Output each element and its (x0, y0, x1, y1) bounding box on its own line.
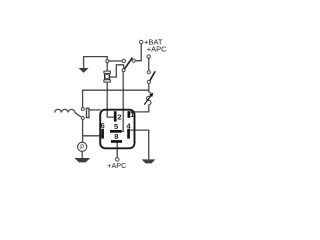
svg-text:+APC: +APC (147, 45, 167, 54)
wire fuse F1 down to relay pin 2 (107, 82, 114, 117)
wire S2 to rheostat R1 (148, 84, 150, 93)
wire upper +APC down to switch S2 (148, 58, 150, 70)
rheostat R1 wavy element (147, 92, 151, 105)
connector J1 lower pin (81, 117, 84, 120)
wire rheostat R1 down to relay pin 1 (130, 105, 149, 112)
node A junction circle (106, 60, 109, 63)
ground G1 symbol (79, 68, 89, 73)
coil lead squiggle (left harness wire) (55, 109, 82, 116)
switch S2 blade (150, 71, 156, 81)
pump M1 circle (78, 142, 87, 151)
relay pin 8 bar (111, 140, 122, 143)
terminal +APC circle (upper) (147, 55, 150, 58)
svg-text:2: 2 (117, 113, 121, 122)
switch S1 left contact (122, 59, 125, 62)
wire junction A to S1 left contact (109, 60, 122, 62)
svg-text:1: 1 (130, 110, 134, 119)
fuse F1 (lamp-in-box) top cap (104, 71, 111, 73)
svg-text:+APC: +APC (107, 161, 126, 170)
fuse F1 body (105, 73, 110, 79)
fuse F1 bottom cap (104, 80, 111, 82)
wire +BAT down to switch S1 right contact (135, 44, 141, 61)
ground G3 symbol (bottom right) (142, 159, 156, 163)
fuse F1 inner circle (105, 74, 109, 78)
wire S1 pivot down to relay pin 5 (122, 72, 124, 132)
wire connector J1 upper pin up and across to R1 node (83, 90, 149, 107)
relay pin 2 bar (114, 111, 117, 121)
wire node A down to fuse F1 (106, 63, 108, 72)
wire fuse side tap to S1 pivot (n-detour) (110, 65, 124, 77)
switch S1 blade (124, 58, 132, 70)
relay pin 5 bar (110, 130, 122, 133)
wire connector J1 lower pin down to pump (82, 120, 84, 143)
connector J1 body bar (86, 108, 89, 118)
terminal +BAT circle (140, 40, 143, 43)
ground G1 wire (top left) (84, 57, 108, 69)
relay box K1 outline (100, 110, 134, 149)
svg-text:6: 6 (100, 121, 104, 130)
svg-text:8: 8 (114, 132, 118, 141)
wire relay pin 4 to right ground (130, 130, 149, 159)
switch S1 right contact (132, 59, 135, 62)
wire relay pin 8 down to lower +APC terminal (116, 143, 118, 158)
relay pin 4 bar (127, 129, 130, 139)
terminal +APC circle (lower) (115, 158, 119, 162)
switch S2 upper contact (147, 71, 150, 74)
relay pin 6 bar (101, 129, 104, 139)
wire pump to ground G2 (81, 151, 83, 158)
switch S2 lower contact (147, 80, 150, 83)
wire pump node to relay pin 6 (83, 135, 102, 137)
ground G2 symbol (bottom left) (74, 158, 90, 162)
connector J1 upper pin (81, 107, 84, 110)
rheostat R1 arrow (144, 95, 151, 105)
relay pin 1 bar (128, 111, 131, 118)
switch S1 pivot contact (122, 69, 125, 72)
svg-text:P: P (80, 144, 84, 151)
wire connector J1 body to fuse wire (89, 109, 101, 111)
